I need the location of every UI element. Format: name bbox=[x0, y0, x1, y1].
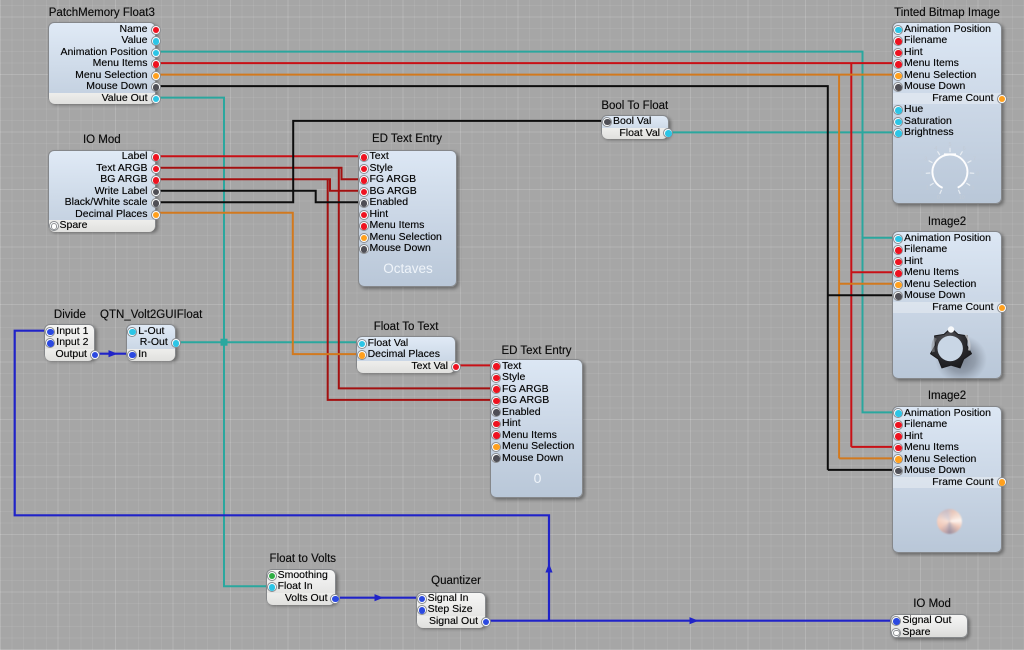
wire Volts Out blue to Signal In bbox=[340, 597, 420, 599]
wire Text ARGB darkred to ED1 FG bbox=[156, 168, 362, 180]
pin QTN_Volt2GUIFloat / In (input) bbox=[138, 349, 173, 361]
pin Float to Volts / Float In (input) bbox=[278, 581, 333, 593]
pin Image2 upper / Animation Position (input) bbox=[904, 233, 999, 245]
wire Mouse Down black branch Image2 upper bbox=[828, 294, 897, 296]
pin IO Mod top-left / BG ARGB (output) bbox=[51, 174, 148, 186]
pin Tinted Bitmap Image / Animation Position (input) bbox=[904, 24, 999, 36]
pin IO Mod bottom-right / Signal Out (input) bbox=[902, 615, 965, 627]
pin Tinted Bitmap Image / Filename (input) bbox=[904, 35, 999, 47]
pin PatchMemory Float3 / Name (output) bbox=[51, 24, 148, 36]
pin Float to Volts / Smoothing (input) bbox=[278, 570, 333, 582]
pin ED Text Entry 1 / Menu Items (input) bbox=[370, 220, 454, 232]
pin Tinted Bitmap Image / Menu Selection (input) bbox=[904, 70, 999, 82]
pin QTN_Volt2GUIFloat / L-Out (input) bbox=[138, 326, 173, 338]
pin Image2 lower / Frame Count (output) bbox=[895, 477, 994, 489]
pin Image2 upper / Frame Count (output) bbox=[895, 302, 994, 314]
pin ED Text Entry 2 / Hint (input) bbox=[502, 418, 580, 430]
pin PatchMemory Float3 / Menu Items (output) bbox=[51, 58, 148, 70]
node IO Mod bottom-right : title bbox=[822, 597, 1024, 611]
node ED Text Entry 2 : title bbox=[427, 344, 647, 358]
pin ED Text Entry 2 / Menu Items (input) bbox=[502, 430, 580, 442]
pin Bool To Float / Float Val (output) bbox=[604, 128, 660, 140]
node PatchMemory Float3 : title bbox=[0, 6, 212, 20]
svg-text:0: 0 bbox=[937, 195, 940, 201]
pin IO Mod top-left / Text ARGB (output) bbox=[51, 163, 148, 175]
pin Float To Text / Decimal Places (input) bbox=[368, 349, 454, 361]
wire Menu Selection orange branch Image2 upper bbox=[839, 283, 897, 285]
wire Divide Output blue to QTN In bbox=[96, 353, 130, 355]
pin ED Text Entry 1 / FG ARGB (input) bbox=[370, 174, 454, 186]
pin IO Mod top-left / Label (output) bbox=[51, 151, 148, 163]
wire BG ARGB darkred to ED1 BG bbox=[156, 179, 362, 191]
svg-text:7: 7 bbox=[973, 156, 976, 162]
node ED Text Entry 2 : box bbox=[490, 359, 583, 498]
junction teal square bbox=[221, 339, 228, 346]
wire Menu Selection orange vertical bbox=[838, 75, 840, 459]
pin ED Text Entry 2 / Enabled (input) bbox=[502, 407, 580, 419]
pin Image2 upper / Menu Selection (input) bbox=[904, 279, 999, 291]
node Quantizer : box bbox=[416, 592, 487, 627]
pin PatchMemory Float3 / Value Out (output) bbox=[51, 93, 148, 105]
wire Mouse Down black branch Image2 lower bbox=[828, 469, 897, 471]
wire Menu Selection orange to Tinted bbox=[156, 74, 898, 76]
pin QTN_Volt2GUIFloat / R-Out (output) bbox=[129, 337, 168, 349]
node Image2 lower : box bbox=[892, 406, 1002, 553]
pin Divide / Input 2 (input) bbox=[56, 337, 92, 349]
svg-text:10: 10 bbox=[959, 195, 965, 201]
node QTN_Volt2GUIFloat : box bbox=[126, 324, 176, 359]
svg-text:5: 5 bbox=[949, 142, 952, 148]
pin Float To Text / Float Val (input) bbox=[368, 338, 454, 350]
node Float to Volts : title bbox=[193, 552, 413, 566]
node Image2 upper : box bbox=[892, 231, 1002, 379]
pin IO Mod top-left / Spare (input) bbox=[60, 220, 154, 232]
wire Text Val red to ED2 Text bbox=[456, 364, 494, 366]
wire Menu Items red branch Image2 lower bbox=[851, 446, 897, 448]
pin ED Text Entry 2 / Menu Selection (input) bbox=[502, 441, 580, 453]
pin ED Text Entry 1 / Mouse Down (input) bbox=[370, 243, 454, 255]
pin PatchMemory Float3 / Value (output) bbox=[51, 35, 148, 47]
node ED Text Entry 1 : box bbox=[358, 150, 457, 287]
arrow Volts Out to Signal In bbox=[375, 594, 384, 601]
wire Float Val teal to Brightness bbox=[665, 131, 897, 133]
svg-text:6: 6 bbox=[963, 145, 966, 151]
pin Divide / Input 1 (input) bbox=[56, 326, 92, 338]
wire R-Out teal to Float Val bbox=[177, 341, 362, 343]
pin Tinted Bitmap Image / Mouse Down (input) bbox=[904, 81, 999, 93]
pin Tinted Bitmap Image / Hue (input) bbox=[904, 104, 999, 116]
pin Quantizer / Step Size (input) bbox=[428, 604, 484, 616]
pin IO Mod top-left / Decimal Places (output) bbox=[51, 209, 148, 221]
node IO Mod top-left : box bbox=[48, 150, 157, 231]
svg-text:9: 9 bbox=[972, 185, 975, 191]
node Divide : title bbox=[0, 308, 180, 322]
svg-text:1: 1 bbox=[926, 185, 929, 191]
arrow Signal Out to IO Mod bbox=[690, 617, 699, 624]
pin PatchMemory Float3 / Animation Position (output) bbox=[51, 47, 148, 59]
pin IO Mod bottom-right / Spare (input) bbox=[902, 627, 965, 639]
wire Value Out teal to Float In bbox=[156, 98, 272, 587]
pin ED Text Entry 2 / FG ARGB (input) bbox=[502, 384, 580, 396]
svg-text:4: 4 bbox=[934, 145, 937, 151]
pin ED Text Entry 1 / Style (input) bbox=[370, 163, 454, 175]
pin Float to Volts / Volts Out (output) bbox=[269, 593, 328, 605]
node Float To Text : title bbox=[296, 320, 516, 334]
pin ED Text Entry 2 / Text (input) bbox=[502, 361, 580, 373]
pin IO Mod top-left / Black/White scale (output) bbox=[51, 197, 148, 209]
node Bool To Float : box bbox=[601, 115, 669, 139]
svg-text:2: 2 bbox=[921, 171, 924, 177]
node Bool To Float : title bbox=[525, 99, 745, 113]
pin PatchMemory Float3 / Mouse Down (output) bbox=[51, 81, 148, 93]
arrow Output to In bbox=[109, 350, 118, 357]
pin ED Text Entry 1 / Menu Selection (input) bbox=[370, 232, 454, 244]
wire Menu Items red vertical bbox=[850, 63, 852, 447]
pin Quantizer / Signal In (input) bbox=[428, 593, 484, 605]
node Divide : box bbox=[44, 324, 95, 359]
node Tinted Bitmap Image : box bbox=[892, 22, 1002, 204]
wire Write Label black to ED1 Enabled bbox=[156, 191, 362, 203]
pin ED Text Entry 1 / Enabled (input) bbox=[370, 197, 454, 209]
pin PatchMemory Float3 / Menu Selection (output) bbox=[51, 70, 148, 82]
wire Menu Items red to Tinted bbox=[156, 62, 898, 64]
node IO Mod bottom-right : box bbox=[890, 614, 968, 638]
wire Signal Out blue feedback to Divide bbox=[15, 331, 549, 621]
svg-text:8: 8 bbox=[976, 171, 979, 177]
pink ball knob graphic bbox=[937, 509, 962, 534]
node Image2 lower : title bbox=[837, 389, 1024, 403]
wire BG ARGB darkred to ED2 BG bbox=[328, 179, 494, 400]
node Float to Volts : box bbox=[266, 569, 336, 604]
pin Tinted Bitmap Image / Hint (input) bbox=[904, 47, 999, 59]
pin ED Text Entry 1 / Text (input) bbox=[370, 151, 454, 163]
pin ED Text Entry 2 / Style (input) bbox=[502, 372, 580, 384]
knob scale graphic bbox=[920, 142, 980, 202]
pin ED Text Entry 1 / BG ARGB (input) bbox=[370, 186, 454, 198]
node Float To Text : box bbox=[356, 336, 457, 371]
pin Image2 lower / Hint (input) bbox=[904, 431, 999, 443]
pin ED Text Entry 2 / BG ARGB (input) bbox=[502, 395, 580, 407]
pin Float To Text / Text Val (output) bbox=[359, 361, 448, 373]
pin Image2 upper / Menu Items (input) bbox=[904, 267, 999, 279]
pin Image2 lower / Filename (input) bbox=[904, 419, 999, 431]
pin Tinted Bitmap Image / Menu Items (input) bbox=[904, 58, 999, 70]
svg-text:3: 3 bbox=[924, 156, 927, 162]
pin Tinted Bitmap Image / Frame Count (output) bbox=[895, 93, 994, 105]
wire Text ARGB darkred to ED2 FG bbox=[339, 168, 494, 389]
wire Menu Items red branch Image2 upper bbox=[851, 271, 897, 273]
arrow feedback up bbox=[545, 564, 552, 573]
pin Tinted Bitmap Image / Saturation (input) bbox=[904, 116, 999, 128]
node QTN_Volt2GUIFloat : title bbox=[41, 308, 261, 322]
wire Black/White scale black to Bool Val bbox=[156, 121, 607, 202]
pin Image2 upper / Filename (input) bbox=[904, 244, 999, 256]
wire Menu Selection orange branch Image2 lower bbox=[839, 457, 897, 459]
wire Signal Out blue to IO Mod bbox=[490, 620, 895, 622]
node PatchMemory Float3 : box bbox=[48, 22, 157, 103]
pin ED Text Entry 1 / Hint (input) bbox=[370, 209, 454, 221]
pin Tinted Bitmap Image / Brightness (input) bbox=[904, 127, 999, 139]
pin Bool To Float / Bool Val (input) bbox=[613, 116, 666, 128]
node IO Mod top-left : title bbox=[0, 133, 212, 147]
pin Image2 upper / Mouse Down (input) bbox=[904, 290, 999, 302]
pin IO Mod top-left / Write Label (output) bbox=[51, 186, 148, 198]
pin Quantizer / Signal Out (output) bbox=[419, 616, 478, 628]
pin Divide / Output (output) bbox=[47, 349, 87, 361]
wire Label red to ED1 Text bbox=[156, 155, 362, 157]
pin Image2 lower / Animation Position (input) bbox=[904, 408, 999, 420]
pin Image2 upper / Hint (input) bbox=[904, 256, 999, 268]
wire Animation Position teal trunk bbox=[156, 52, 898, 413]
pin Image2 lower / Mouse Down (input) bbox=[904, 465, 999, 477]
wire Animation Position teal branch to Image2 upper bbox=[863, 237, 898, 239]
pin ED Text Entry 2 / Mouse Down (input) bbox=[502, 453, 580, 465]
pin Image2 lower / Menu Items (input) bbox=[904, 442, 999, 454]
node Image2 upper : title bbox=[837, 215, 1024, 229]
node Quantizer : title bbox=[346, 574, 566, 588]
pin Image2 lower / Menu Selection (input) bbox=[904, 454, 999, 466]
dark knob graphic bbox=[914, 312, 992, 390]
node Tinted Bitmap Image : title bbox=[837, 6, 1024, 20]
wire Decimal Places orange to Float To Text bbox=[156, 213, 362, 354]
node ED Text Entry 1 : title bbox=[297, 132, 517, 146]
wire Mouse Down black trunk bbox=[156, 86, 828, 470]
